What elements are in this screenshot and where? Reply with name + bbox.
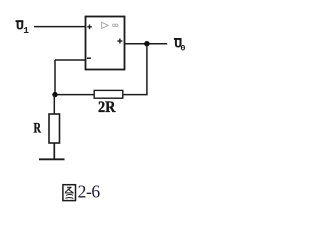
- op-amp output + polarity mark: [117, 39, 122, 44]
- node Vin label U1: [16, 19, 30, 36]
- wire junction to R: [53, 95, 55, 114]
- op-amp infinity symbol: [113, 24, 118, 27]
- svg-text:2-6: 2-6: [78, 181, 101, 201]
- caption figure label 图2-6: [63, 181, 100, 201]
- node feedback junction: [52, 92, 57, 97]
- glyph tu (box): [63, 185, 76, 201]
- wire inverting input vertical: [54, 60, 56, 95]
- op-amp - input mark: [87, 57, 91, 59]
- wire input to op-amp +: [34, 26, 86, 28]
- svg-text:R: R: [34, 121, 42, 137]
- resistor R: [49, 114, 60, 143]
- wire output: [125, 43, 168, 45]
- ground: [39, 158, 65, 160]
- wire inverting input horizontal: [55, 59, 86, 61]
- wire feedback vertical: [146, 44, 148, 95]
- svg-text:0: 0: [180, 43, 185, 53]
- node Vout label U0: [174, 37, 186, 54]
- wire feedback horizontal left: [55, 94, 94, 96]
- op-amp triangle symbol: [102, 22, 109, 28]
- glyph tu inner strokes: [65, 187, 74, 198]
- node output junction: [144, 41, 149, 46]
- wire feedback horizontal right: [123, 94, 148, 96]
- wire R to ground: [53, 143, 55, 159]
- op-amp U1: [86, 17, 125, 70]
- op-amp + input mark: [87, 25, 92, 30]
- resistor 2R: [94, 90, 123, 98]
- svg-text:1: 1: [23, 25, 29, 36]
- svg-text:2R: 2R: [98, 99, 116, 116]
